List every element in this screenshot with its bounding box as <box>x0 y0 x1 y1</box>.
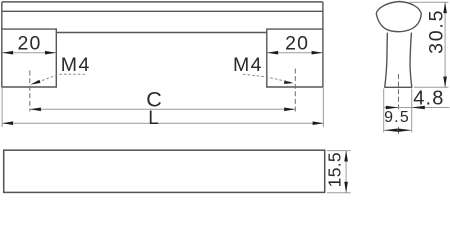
hole center line (right post) <box>294 69 296 112</box>
svg-text:4.8: 4.8 <box>413 88 444 110</box>
svg-text:15.5: 15.5 <box>324 152 344 187</box>
dimension 9.5 (base width) <box>384 89 412 133</box>
knob center line lower dash <box>398 127 400 134</box>
right post block <box>267 29 323 87</box>
dimension 20 (right post) <box>267 33 323 55</box>
svg-text:20: 20 <box>17 33 41 55</box>
extension line left (L) <box>1 87 3 127</box>
svg-text:20: 20 <box>285 33 309 55</box>
bar inner edge line <box>2 10 323 12</box>
left post block <box>2 29 57 87</box>
svg-text:9.5: 9.5 <box>384 109 410 126</box>
leader arrow M4 left <box>30 74 85 85</box>
handle bar top edge <box>2 1 323 3</box>
svg-text:M4: M4 <box>233 54 263 76</box>
dimension 30.5 (knob height) <box>409 2 448 87</box>
svg-text:L: L <box>148 108 159 129</box>
bar right end edge <box>322 2 324 29</box>
svg-text:30.5: 30.5 <box>426 9 448 54</box>
knob base line <box>384 86 412 88</box>
knob stem right side <box>410 33 412 88</box>
svg-text:M4: M4 <box>61 54 91 76</box>
extension line right (L) <box>322 88 324 127</box>
knob side view: dome cap <box>376 2 421 32</box>
dimension L (overall length) <box>2 108 324 129</box>
leader arrow M4 right <box>243 74 294 84</box>
dimension 4.8 (neck) <box>384 88 450 110</box>
bar bottom edge (between posts) <box>56 32 266 34</box>
dimension C (hole distance) <box>30 88 295 112</box>
bar left end edge <box>1 2 3 29</box>
dimension 15.5 (bar thickness) <box>324 151 350 193</box>
knob center line <box>398 74 400 111</box>
dimension 20 (left post) <box>2 33 56 55</box>
knob stem left side <box>385 33 388 88</box>
bottom view rectangle <box>4 150 325 192</box>
hole center line (left post) <box>29 71 31 112</box>
